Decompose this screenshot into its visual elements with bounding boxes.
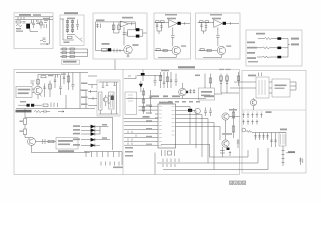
wire drop d1 [254,133,256,141]
resistor Jg body [220,76,223,81]
chain M extra 2 [63,73,65,85]
wire B left vertical [62,19,64,40]
left column label r2 [125,151,133,153]
label F top [256,33,265,35]
wire to divider [121,152,123,166]
row M-right 3 element [88,97,97,100]
transistor Q2 [217,46,225,54]
transformer T1 core [26,24,30,29]
capacitor bank row1 c5 [260,113,262,118]
tick row t7 [118,152,120,158]
diode VD2 body [40,22,43,25]
tick cluster A6 [44,24,47,28]
wire VD16 [140,81,142,92]
label Q1 [181,45,186,46]
tick cluster A1 [18,17,24,20]
wire module to Q9 [215,93,223,95]
sub-circuit box G (power module, right) [242,71,306,174]
wire diode row [18,104,42,106]
left column label r3 [125,155,133,157]
LED L5 body [91,144,95,147]
capacitor A3 [30,20,32,23]
marks top row M [56,75,58,78]
resistor R15b [24,129,27,135]
net label row d [189,101,193,103]
label mid C [102,43,110,45]
transistor Q2 internals [220,47,224,53]
wire G left in1 [243,81,257,83]
wire from rail [24,109,26,119]
caption text bottom right [230,181,246,184]
IC U6 text1 [18,89,31,91]
wire under triangle [123,27,125,46]
MCU pin L4 [155,117,158,119]
wire B left stub [60,18,64,20]
capacitor C6 [171,27,174,46]
tick row t6 [113,152,115,158]
resistor R6 [102,48,108,51]
MCU U7 inner pin names right [172,107,175,136]
label in label-box [63,61,77,63]
small marks above stub [128,75,131,77]
capacitor C15 [154,75,157,86]
capacitor C12 [42,110,51,113]
row M-right 1 label [81,83,88,85]
MCU pin L8 [124,133,158,135]
label G top [248,75,256,77]
label Q2 [226,45,231,46]
capacitor C1 plates [32,23,35,28]
wire row3 b [281,56,288,58]
resistor R15 [24,119,27,125]
row M-right 1 wire [88,85,97,89]
module K1 inner marks [259,80,265,95]
wire LED out1 [100,126,108,128]
resistor chain Jg [220,74,222,94]
label LED out2 [102,137,107,139]
wire Q12 base [96,50,124,52]
LED L4 [81,139,110,141]
capacitor C13b [106,82,108,86]
row M-right 2 element [88,90,97,93]
chain Jt2 [163,72,165,88]
wire top internal rail [16,72,88,74]
transistor Q4 [34,86,42,94]
wire from U2 apex [129,23,136,25]
label F left4 [247,57,256,59]
resistor chain Je [204,74,206,89]
LED L4 body [91,138,95,141]
marks F bottom [248,61,258,62]
resistor on rail E2 [205,21,209,23]
inner module J1 marks [128,95,133,101]
wire K1-U5 pin3 [269,92,272,94]
label AC IN [19,14,31,16]
capacitor C14 [43,139,45,144]
chain M mid2 body [49,84,52,89]
wire Q9-Q10 [225,120,227,140]
wire row2 [60,52,88,54]
IC U6 text2 [18,92,29,94]
diode VD14 [188,109,192,112]
capacitor C1 [33,20,35,23]
resistor Jf body [209,78,212,83]
label R11 [48,75,54,76]
LED L5 [81,144,100,146]
diode VD6 [177,22,180,25]
wire left vertical C [95,22,97,51]
label under K2 [58,150,74,152]
wire row2 b [281,47,288,49]
node dot [47,43,48,44]
MCU U7 label [159,102,173,104]
bus rail J [126,98,206,100]
capacitor C19 [189,89,191,94]
diode VD8 [277,37,281,40]
label LED out1 [102,124,107,126]
wire bottom rail D [158,55,176,58]
resistor R4 [113,22,115,33]
diode D2 body [71,21,74,23]
small parts row bottom [101,162,119,166]
wire Da-Db join [157,31,162,34]
chain Jt3 [167,72,169,88]
resistor on base E [200,49,204,51]
resistor chain R12 [68,73,70,91]
wire drop d2 [258,133,260,141]
MCU right pin stair 2 [176,111,197,149]
capacitor chain Da [156,22,158,31]
MCU pin L11 [124,144,158,146]
resistor Jm1 body1 [142,91,145,95]
tick t4 [282,162,285,164]
label Jr [229,109,237,111]
wire Q6 right [36,141,57,143]
resistor Jm1 body2 [142,99,145,103]
capacitor C20 [193,89,195,94]
tick marks c [51,103,58,108]
inner battery box I [97,80,120,116]
transistor Q3 internals [252,100,255,105]
LED column labels l3 [73,133,80,135]
chain M mid2 [49,81,51,98]
wire G left in2 [243,87,257,89]
diode D1 body [66,21,69,23]
op-amp U4 triangle [214,20,223,28]
wire I bottom [99,82,119,114]
resistor above Q4 [37,80,40,85]
diode VD2 chain [40,20,42,29]
wire row3 [257,56,277,58]
cluster B bottom [67,34,75,36]
relay KA1 hatches [281,134,286,145]
chain far right body [237,76,240,81]
resistor R4 body [112,25,115,30]
label Q10 [222,133,232,135]
tick elements between pins b [128,131,136,137]
wire bus right of B2 [87,49,89,57]
LED L3 body [91,132,95,135]
chain Jt3 body [166,77,169,82]
resistor R8 [262,47,271,49]
wire A8 [30,29,38,32]
pin label a [146,105,152,106]
module U8 text1 [201,91,212,93]
row M-right 3 label [81,97,88,99]
battery B2 dark mark [111,96,114,101]
label A7 [16,31,23,32]
capacitor chain Ea [200,22,202,31]
diode VD16 (black triangle) [139,84,143,88]
tick row t3 [96,152,98,158]
wire U6 pin1 [32,88,35,90]
transistor Q1 [172,46,180,54]
resistor Jg ticks [220,82,222,84]
IC U5 [272,79,290,97]
wire down2 [24,135,26,138]
transistor Q4 internals [36,87,41,99]
wire mid bus J [124,118,159,120]
sub-circuit box A (AC input rectifier) [14,13,53,49]
label F left3 [247,52,255,54]
label F left1 [247,42,255,44]
wire drop d3 [262,133,264,141]
diode VD11 [27,104,30,107]
pin label e [146,136,152,137]
capacitor chain Eb [205,22,207,31]
MCU U7 inner pin names left [159,106,162,145]
label M (dark) [16,110,32,113]
MCU right pin stair 5 [176,123,215,170]
regulator module K1 [256,77,269,98]
LED L1 [81,126,100,128]
resistor R14 [34,111,42,113]
transistor Q6 [28,138,36,146]
LED column labels l5 [73,144,80,146]
resistor row2 a [62,52,67,54]
tick t3 [282,158,285,160]
resistor chain Jm2 [150,90,152,114]
wire K1-U5 pin2 [269,87,272,89]
resistor R9 [262,56,271,58]
resistor R5 body [118,25,121,30]
tick row t1 [85,152,87,158]
capacitor bank row2 c2 [247,120,249,125]
wire Q1 base left [155,50,173,52]
main middle box M+J [14,70,240,175]
bus label 2 [163,95,168,97]
net label row b [175,101,179,103]
divider between M and J [122,70,124,175]
tick marks C [114,49,120,53]
capacitor C4 [123,32,127,36]
crystal caps [162,150,175,156]
sub-circuit box E [196,13,241,59]
wire drop d5 [270,133,272,148]
diode VD12 [31,104,34,107]
wire G rail [252,132,286,134]
wire LED VD4 [128,30,143,36]
battery B1 hatches [99,94,101,108]
transistor Q12 internals [126,47,130,53]
diode column D2 [72,20,74,34]
resistor Jr body2 [232,126,235,132]
capacitor C13 [102,82,104,88]
capacitor C18 [209,108,212,117]
label R15b [20,131,24,132]
label top E2 [212,18,221,20]
op-amp U2 triangle [120,21,128,27]
MCU pin L7 [124,129,158,131]
capacitor C17 [204,108,207,117]
wire Q10 down [220,147,225,157]
wire crossing to box G y82 [234,81,243,83]
battery B2 hatches [110,94,112,108]
diode D1 body3 [66,29,69,31]
MCU pin L6 [124,125,158,127]
label F left2 [247,47,257,49]
MCU pin L10 [124,140,158,142]
transistor Q9 internals [224,114,228,119]
MCU right pin stair 1 [176,107,191,145]
sub-circuit box D [154,13,191,59]
wire top rail E [198,21,214,23]
tick elements between pins a [128,139,132,145]
resistor Jm1 body3 [142,107,145,111]
wire row1 b [281,38,288,40]
resistor chain Jr [233,108,235,138]
net label row c [182,101,186,103]
diode VD5 [108,48,111,51]
dark dot Q11 [186,91,188,93]
inner module box J1 [125,92,137,115]
capacitor C16 [175,74,178,87]
wire Ea-Eb join [202,31,207,34]
label inside B bottom [64,42,70,44]
tick row t5 [107,152,109,158]
resistor R12 body [67,76,70,82]
MCU pin L9 [124,136,158,138]
label F right2 [291,43,299,45]
tick row t4 [102,152,104,158]
wire vertical bus F [287,39,289,58]
wire Q9 out [229,116,239,118]
resistor R13 [43,104,48,107]
net label row a [168,101,172,103]
wire down [24,125,26,130]
wire route U1 [161,144,210,157]
small rect B bottom [68,36,73,38]
wire top rail [15,16,53,18]
row M-right 4 wire [88,105,97,107]
wire top rail C [96,21,136,23]
LED VD4 [136,35,140,38]
wire row1 [60,48,88,50]
capacitor Jm2 marks [149,96,152,107]
bus label 4 [204,95,214,97]
small cluster right edge G [299,158,303,166]
transistor Q3 [250,99,256,105]
resistor row2 b [70,52,75,54]
label fuse F1 [33,14,41,16]
small marks top mid [195,75,200,77]
tick t2 [282,154,285,156]
resistor on rail D [156,21,160,23]
pin label d [146,128,152,129]
diode VD10 [277,56,281,59]
capacitor bank row2 c3 [251,120,253,125]
bus label 3 [172,95,180,97]
capacitor C2 [43,38,46,39]
wire row2 [257,47,277,49]
wire from VD7 [226,22,239,24]
chain Jt1 body [159,76,162,81]
bus label 1 [150,95,159,97]
tick rows below crystal b [163,164,175,167]
wire LED join [99,127,101,135]
label VD1 [16,28,21,29]
resistor Jh ticks [226,82,228,84]
wire relay down [282,146,284,166]
circle motor M1 [242,128,246,132]
wire stub right [286,152,295,154]
box G internal divider [242,109,306,111]
resistor Jh body [226,76,229,81]
wire vertical links [66,73,86,109]
marks below Q10 [229,151,231,156]
small parts left of Q4 [31,81,35,86]
title above box J [178,66,195,68]
label right of wire [288,151,295,153]
MCU right pin stair 3 [176,115,203,158]
MCU U7 [158,104,176,148]
diode column D1 [67,20,69,34]
chain Jt1 [160,72,162,88]
diode D1 body2 [66,25,69,27]
wire Q3 down [253,98,255,110]
module K2 text2 [58,144,70,146]
Q5 marks [105,95,110,106]
resistor row3 b [70,56,75,58]
MCU pin L2 [139,109,159,111]
wire right vert C [143,30,147,36]
IC U6 [16,87,32,98]
wire Q6 down [32,146,91,153]
resistor R7 [264,38,273,40]
label top D [165,14,177,16]
wire route U2 [210,150,249,157]
diode VD9 [277,47,281,50]
wire from box C down to box M [114,60,116,70]
op-amp U3 triangle [169,20,178,28]
wire route U3 [157,148,258,163]
resistor on rail E [200,21,204,23]
wire Q4 up [37,75,39,87]
row M-right 2 label [81,90,88,92]
small marks cluster [44,21,48,23]
chain M extra 1 [54,77,56,89]
tick rows below crystal a [163,159,179,163]
resistor row3 a [62,56,67,58]
MCU right pin stair 6 [176,127,221,141]
label R15 [20,121,24,122]
wire crossing to box G y88 [230,87,243,89]
tick row t2 [91,152,93,158]
battery cell B2 [109,92,115,109]
wire second rail [15,19,53,21]
transistor Q10 [222,140,229,147]
label above triangle [122,17,133,19]
